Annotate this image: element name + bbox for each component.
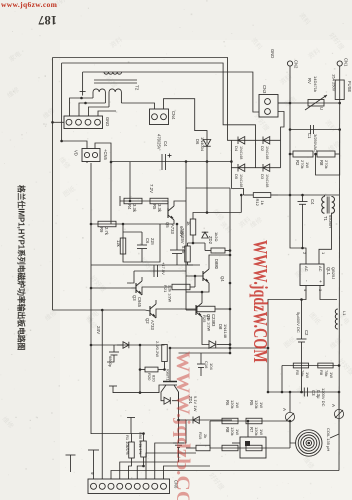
svg-text:R90 6.2k 1%: R90 6.2k 1% — [138, 432, 143, 455]
svg-text:D8: D8 — [218, 324, 223, 330]
wire bridge output — [231, 189, 243, 196]
svg-text:C3: C3 — [311, 390, 316, 396]
svg-text:www.jq6zw.com: www.jq6zw.com — [1, 0, 58, 9]
wire R12 node down — [240, 195, 242, 213]
wire varistor row y103 — [278, 102, 340, 104]
svg-text:C6: C6 — [145, 238, 150, 244]
connector CN7 4-pin — [64, 116, 103, 129]
wire R9 bottom to pin — [137, 457, 143, 479]
svg-text:QL1: QL1 — [326, 267, 331, 276]
svg-text:FUSE: FUSE — [347, 81, 352, 92]
wire top rail 1 to bridge — [53, 58, 232, 141]
svg-text:650mH: 650mH — [328, 215, 333, 228]
resistor R8b 78k 1W — [318, 363, 333, 368]
wire R14 bottom to zener row — [192, 235, 194, 243]
svg-text:+17.5V: +17.5V — [161, 262, 166, 275]
wire rail1 left drop — [52, 58, 54, 311]
wire R21 to Q4 base — [194, 276, 196, 287]
svg-text:GND: GND — [105, 117, 110, 126]
svg-text:D2: D2 — [260, 146, 265, 152]
diode D5 1N4148 — [238, 164, 245, 172]
svg-text:C4: C4 — [310, 199, 315, 205]
svg-text:120k: 120k — [230, 427, 235, 436]
svg-text:D4: D4 — [234, 146, 239, 152]
svg-text:1N4004: 1N4004 — [200, 137, 205, 152]
wire CN5 left pin down — [86, 162, 88, 164]
wire CN7 to rail1 — [53, 121, 65, 123]
wire row stub down-left — [127, 271, 134, 283]
svg-text:820: 820 — [152, 375, 157, 382]
svg-text:A: A — [331, 404, 336, 407]
wire gate out — [186, 291, 202, 293]
svg-text:1N4148: 1N4148 — [265, 146, 269, 159]
resistor R12 1k — [253, 193, 270, 198]
wire pin4 riser — [120, 462, 179, 479]
wire Q1 collector — [201, 292, 203, 303]
svg-text:15A 250V: 15A 250V — [332, 74, 337, 92]
svg-text:0.3μ: 0.3μ — [316, 390, 321, 399]
transformer T1 — [322, 197, 325, 214]
svg-text:2.2/0.2W: 2.2/0.2W — [155, 341, 160, 357]
wire CN4 pin2 to diode D6 — [164, 99, 208, 144]
capacitor C4 470u/25V — [161, 154, 163, 170]
svg-text:22n: 22n — [150, 238, 155, 246]
resistor R6g 120k — [246, 418, 262, 424]
svg-text:5.6k: 5.6k — [181, 246, 186, 254]
node left rail y224 — [90, 223, 93, 226]
wire divider row y365 — [282, 365, 339, 367]
svg-text:CN2: CN2 — [294, 60, 299, 69]
capacitor C7 on row — [153, 265, 155, 277]
wire pin1 ground riser — [93, 450, 95, 479]
wire 7.2V row y201 — [120, 200, 162, 202]
diode D8 1N4148 — [209, 341, 216, 349]
wire loop 12k C6 — [123, 224, 160, 262]
node 111-162 — [110, 161, 113, 164]
diode D4 1N4148 — [238, 137, 245, 145]
wire CN2 rail down — [289, 66, 291, 195]
wire Q5 emitter down — [160, 220, 174, 224]
wire divider left drop — [281, 366, 283, 393]
svg-text:D5: D5 — [234, 174, 239, 180]
wire CN3 pin2 to bridge right top — [278, 112, 284, 141]
wire thermal switch top — [247, 421, 249, 437]
wire mid rail x186 — [185, 162, 187, 311]
svg-text:3.3k: 3.3k — [157, 204, 162, 213]
svg-text:WWW.jqdzW.COM: WWW.jqdzW.COM — [249, 240, 271, 363]
capacitor C10 6800p — [113, 345, 115, 352]
wire igbt emitter down to gnd — [178, 392, 180, 443]
svg-text:78k: 78k — [324, 370, 329, 376]
wire test stub — [130, 418, 132, 434]
svg-text:R0: R0 — [295, 370, 300, 376]
transformer T2 core — [94, 79, 137, 81]
svg-text:Q4: Q4 — [220, 276, 225, 282]
induction coil — [306, 440, 312, 446]
svg-text:C2383: C2383 — [211, 314, 216, 327]
wire pin8 riser — [155, 420, 186, 479]
resistor R7g 120k — [246, 445, 262, 451]
wire pin3 riser y470 bus — [111, 471, 339, 480]
svg-text:COIL 135 μH: COIL 135 μH — [326, 428, 331, 451]
resistor R9 2.7k — [98, 221, 116, 227]
svg-text:AC: AC — [318, 266, 323, 272]
wire grid left join — [209, 421, 211, 448]
capacitor C1 row y129.5 — [290, 129, 340, 131]
svg-text:D880: D880 — [214, 259, 219, 270]
wire Q1 emitter to diode D8 — [202, 317, 209, 345]
wire R9 row y224 — [91, 223, 160, 225]
svg-text:L1: L1 — [342, 311, 347, 316]
svg-text:1W: 1W — [305, 372, 310, 378]
svg-text:5μ400V DC: 5μ400V DC — [296, 312, 301, 333]
resistor R0 78k 1W — [293, 363, 308, 368]
wire pin9 riser — [164, 466, 211, 479]
thermal switch — [240, 437, 266, 458]
svg-text:1W: 1W — [235, 429, 240, 435]
resistor R8g 120k — [222, 445, 238, 451]
wire CN5 pin2 to node 111-162 — [95, 143, 111, 162]
svg-text:R9: R9 — [99, 227, 104, 233]
svg-text:A733: A733 — [150, 320, 155, 330]
svg-text:格兰仕IMP1,HYP1系列电磁炉功率输出板电路图: 格兰仕IMP1,HYP1系列电磁炉功率输出板电路图 — [17, 184, 27, 351]
capacitor C8 220u/25V — [176, 224, 178, 250]
connector CN5 2-pin — [82, 149, 100, 162]
svg-text:2.2k 1/2W: 2.2k 1/2W — [168, 285, 172, 303]
coil terminal left — [285, 412, 294, 421]
ground igbt emitter — [173, 442, 184, 444]
wire bridge left side — [230, 140, 232, 188]
resistor R23 2.2/0.25W — [162, 345, 168, 362]
wire QL1 plus out to choke — [320, 286, 337, 300]
svg-text:78k: 78k — [300, 370, 305, 376]
bridge rectifier QL1 — [300, 264, 324, 286]
svg-text:GND: GND — [270, 49, 275, 58]
svg-text:1N4148: 1N4148 — [239, 146, 243, 159]
svg-text:104: 104 — [209, 363, 214, 370]
wire 18V row y271 — [134, 270, 186, 272]
capacitor C4 — [302, 195, 304, 202]
svg-text:R12: R12 — [255, 199, 260, 207]
wire D6 bottom to R14 — [193, 213, 241, 220]
svg-text:14D471k: 14D471k — [313, 76, 318, 92]
wire gate stub — [113, 386, 140, 393]
svg-text:120k: 120k — [254, 427, 259, 436]
wire CN7 pin3 to secondary2 left leg — [89, 107, 110, 116]
zener ZD2 — [202, 232, 209, 238]
svg-text:1N4148: 1N4148 — [223, 324, 228, 339]
wire x230 rail — [229, 188, 231, 353]
svg-text:T2: T2 — [135, 85, 140, 91]
svg-text:QB25J: QB25J — [331, 267, 336, 279]
wire bridge right side — [280, 140, 282, 167]
transformer T2 secondary 2 — [109, 89, 121, 92]
zener ZD1 9.1V 1W — [186, 419, 232, 421]
transformer T2 primary winding — [104, 72, 122, 74]
wire coil leads — [290, 422, 296, 443]
wire ground row y265 — [91, 264, 200, 266]
resistor R10 12k — [120, 238, 126, 254]
wire QL1 minus out — [268, 286, 306, 393]
svg-text:1N4148: 1N4148 — [239, 174, 243, 187]
wire CN7 pin1 to secondary1 left leg — [70, 98, 94, 116]
svg-text:1200V DC: 1200V DC — [321, 388, 326, 407]
wire gate to IGBT — [140, 385, 163, 393]
wire Q2 base row y311 — [53, 309, 146, 311]
diode D3 1N4148 — [263, 164, 270, 172]
svg-text:IGBT1: IGBT1 — [166, 369, 171, 381]
wire pin2 long left loop — [101, 310, 103, 479]
transistor Q5 — [162, 200, 168, 202]
wire 24V row y345 — [91, 344, 165, 346]
terminal CN2 — [287, 61, 292, 66]
svg-text:1W: 1W — [305, 162, 310, 168]
svg-text:1k: 1k — [260, 201, 265, 205]
connector CN3 2-pin vertical — [259, 95, 278, 118]
svg-text:R21: R21 — [163, 285, 168, 293]
svg-text:Q1: Q1 — [206, 314, 211, 320]
wire Q3 base from left rail — [91, 287, 131, 289]
svg-text:CN3: CN3 — [262, 85, 267, 94]
resistor R24 — [196, 445, 210, 451]
svg-text:Q5: Q5 — [165, 222, 170, 228]
wire bridge top row y140 — [231, 139, 280, 141]
svg-text:120k: 120k — [254, 400, 259, 409]
wire bridge bottom row y168 — [231, 167, 280, 169]
svg-text:R7: R7 — [249, 427, 254, 433]
coil terminal right — [334, 409, 343, 418]
svg-text:C945: C945 — [137, 297, 142, 308]
svg-text:R4: R4 — [127, 204, 132, 210]
svg-text:187: 187 — [38, 13, 57, 27]
damper diode — [164, 397, 170, 404]
IGBT1 — [169, 348, 171, 381]
resistor R14 1k — [190, 219, 196, 235]
transistor Q4 D880 — [202, 271, 204, 281]
svg-text:1W: 1W — [259, 429, 264, 435]
wire Q2 collector emitter — [155, 300, 157, 304]
resistor row R2 R8 y154 — [290, 153, 293, 155]
wire row down from rail y162 — [129, 162, 131, 201]
transistor Q3 C945 — [135, 283, 137, 293]
node r9 top — [142, 432, 145, 435]
wire left rail x91 — [90, 163, 92, 434]
wire y195 row — [278, 194, 339, 196]
resistor grid row1 y421 — [210, 420, 290, 422]
wire rail3 tap — [82, 72, 84, 92]
transistor Q2 A733 — [149, 306, 151, 316]
resistor R21 2.2k 1/2W — [172, 284, 190, 290]
resistor R1 10k/1% — [131, 434, 133, 443]
choke L1 — [335, 309, 338, 329]
wire T1 bottom to QL1 AC pin — [319, 213, 332, 264]
wire rail2 left drop — [61, 63, 63, 141]
wire CN7 pin2 to secondary1 right leg — [79, 103, 105, 116]
svg-text:+CN5: +CN5 — [103, 149, 108, 160]
transistor Q1 C2383 — [195, 305, 197, 315]
wire Q4 collector to x230 — [209, 255, 230, 269]
svg-text:VD: VD — [74, 150, 79, 156]
svg-text:R5: R5 — [249, 400, 254, 406]
wire fuse rail right border — [338, 103, 341, 471]
varistor RV — [308, 100, 324, 107]
resistor R17 5.6k — [187, 243, 189, 246]
svg-text:R6: R6 — [225, 400, 230, 406]
resistor R90 6.2k/1% — [143, 434, 145, 442]
wire CN3 out right top — [278, 102, 290, 104]
connector CN4 2-pin — [150, 109, 169, 125]
svg-text:2k: 2k — [203, 434, 208, 438]
wire y188 link — [186, 187, 230, 189]
svg-text:Q3: Q3 — [132, 295, 137, 301]
svg-text:470/25V: 470/25V — [157, 134, 162, 150]
svg-text:+: + — [318, 280, 323, 283]
wire zener row y243 — [188, 242, 206, 244]
svg-text:12k: 12k — [116, 240, 121, 248]
svg-text:AC: AC — [304, 266, 309, 272]
wire secondary2 right leg to CN4 pin1 — [121, 103, 154, 109]
resistor grid row2 y448 — [210, 447, 290, 449]
connector CN6 pin strip — [88, 479, 170, 494]
svg-text:R2: R2 — [295, 160, 300, 166]
wire bridge mid side — [255, 140, 257, 167]
svg-text:3.3k: 3.3k — [132, 204, 137, 213]
svg-text:R8: R8 — [225, 427, 230, 433]
svg-text:C16: C16 — [204, 361, 209, 369]
transformer T2 secondary 1 — [93, 89, 105, 92]
svg-text:220/25V: 220/25V — [180, 228, 185, 244]
wire 7V rail y162 — [111, 161, 231, 163]
svg-text:120k: 120k — [230, 400, 235, 409]
wire emitter bus y353 — [179, 352, 231, 354]
svg-text:R1 10k/1%: R1 10k/1% — [125, 435, 130, 455]
wire R23 bottom — [164, 362, 166, 370]
wire R junction down — [316, 154, 340, 175]
svg-text:U: U — [319, 107, 324, 110]
test point stub — [70, 455, 72, 472]
svg-text:WWW.jqdzb.COM: WWW.jqdzb.COM — [172, 351, 193, 500]
svg-text:D3: D3 — [260, 174, 265, 180]
resistor R25 10k 1/2W — [197, 306, 215, 312]
wire Q3 emitter to R21 — [142, 287, 172, 295]
svg-text:R8: R8 — [319, 370, 324, 376]
svg-text:9.1V 1W: 9.1V 1W — [193, 396, 198, 412]
wire Q5 collector to 24V rail — [174, 201, 186, 206]
svg-text:RV: RV — [307, 78, 312, 84]
svg-text:D6: D6 — [195, 139, 200, 145]
svg-text:2.7k: 2.7k — [104, 227, 109, 236]
fuse FUSE 15A 250V — [339, 66, 341, 103]
svg-text:6800p: 6800p — [108, 356, 113, 368]
wire main bus y348 — [170, 347, 268, 349]
node 12k top — [122, 223, 125, 226]
resistor R4 3.3k — [124, 198, 142, 204]
wire CN5 pin1 up — [62, 141, 87, 149]
resistor R20 820 — [145, 367, 158, 372]
capacitor C16 104 — [200, 353, 202, 364]
svg-text:A733: A733 — [170, 224, 175, 234]
wire Q4 emitter — [202, 283, 209, 292]
wire x290 to QL1 AC pin 2 — [290, 195, 306, 264]
svg-text:R8: R8 — [319, 160, 324, 166]
svg-text:C1: C1 — [307, 133, 312, 139]
diode D2 1N4148 — [263, 137, 270, 145]
wire Q3 collector — [141, 277, 143, 281]
wire zd row — [179, 419, 187, 421]
svg-text:R19: R19 — [198, 432, 203, 440]
wire CN7 pin4 riser — [98, 111, 116, 116]
wire node down to R9 row — [110, 162, 112, 224]
svg-text:Q2: Q2 — [145, 318, 150, 324]
svg-text:1W: 1W — [329, 372, 334, 378]
svg-text:R5: R5 — [152, 204, 157, 210]
wire gnd row y265 — [188, 264, 194, 266]
svg-text:7.2V: 7.2V — [149, 184, 154, 193]
svg-text:24V: 24V — [96, 326, 101, 335]
svg-text:ZD2: ZD2 — [208, 236, 213, 245]
resistor R15 1k2 — [211, 248, 225, 253]
resistor R5g 120k — [222, 418, 238, 424]
wire R12 row — [244, 194, 254, 196]
svg-text:C4: C4 — [163, 141, 168, 147]
terminal CN1 — [337, 61, 342, 66]
wire y433 line — [91, 433, 144, 435]
capacitor C2 5u 400V DC — [301, 300, 303, 340]
svg-text:C2: C2 — [304, 330, 309, 336]
svg-text:R20: R20 — [147, 373, 152, 381]
capacitor C6 22n — [141, 232, 143, 245]
wire pin7 riser — [146, 453, 196, 479]
wire resonant row y392 — [268, 391, 339, 393]
svg-text:CN4: CN4 — [171, 111, 176, 120]
wire top rail 3 through T2 primary to CN3 pin2 — [83, 72, 259, 112]
svg-text:270k: 270k — [324, 160, 329, 169]
node fuse bottom — [338, 102, 341, 105]
wire grid right join — [289, 421, 291, 448]
zener ZD3 — [123, 342, 129, 349]
resistor R5 3.3k — [150, 198, 168, 204]
svg-text:1W: 1W — [235, 402, 240, 408]
svg-text:270k: 270k — [300, 160, 305, 169]
wire top rail 2 to bridge mid — [62, 63, 256, 140]
svg-text:T1: T1 — [323, 216, 328, 222]
svg-text:1N4148: 1N4148 — [265, 174, 269, 187]
svg-text:3/250VAC: 3/250VAC — [313, 134, 318, 152]
svg-text:A: A — [282, 408, 287, 411]
capacitor C3 0.3u 1200V — [303, 388, 305, 397]
svg-text:CN1: CN1 — [344, 58, 349, 67]
diode D6 1N4004 — [203, 140, 211, 147]
svg-text:1k2Ω: 1k2Ω — [214, 232, 219, 241]
wire gate rail x140 — [139, 345, 141, 393]
svg-text:1W: 1W — [259, 402, 264, 408]
wire R1 bottom to pin — [129, 458, 132, 479]
